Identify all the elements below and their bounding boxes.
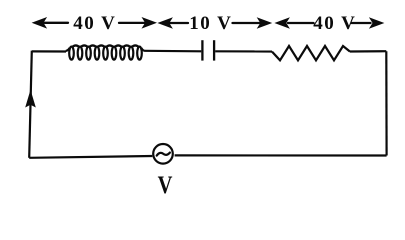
dim line 40V left shaft-left	[45, 22, 69, 24]
arrowhead dim1 right	[142, 17, 158, 29]
arrowhead dim2 left	[157, 17, 173, 29]
svg-text:10 V: 10 V	[189, 13, 232, 34]
wire source to bottom-left corner	[29, 156, 152, 158]
svg-text:40 V: 40 V	[313, 13, 356, 34]
wire capacitor to resistor	[215, 50, 272, 52]
inductor L1 coil	[66, 45, 145, 59]
arrowhead dim1 left	[32, 17, 47, 29]
arrowhead dim3 left	[274, 17, 290, 29]
dim line 40V right shaft-left	[288, 22, 314, 24]
wire top-left corner to coil	[32, 50, 66, 52]
arrowhead dim2 right	[257, 17, 273, 29]
wire coil to capacitor	[145, 50, 202, 53]
svg-text:V: V	[158, 171, 174, 197]
wire left side	[29, 51, 32, 158]
svg-text:40 V: 40 V	[73, 13, 116, 34]
capacitor C1 plates	[202, 40, 214, 60]
current arrow on left wire	[25, 90, 36, 108]
ac source V circle	[153, 144, 173, 164]
resistor R1 zigzag	[272, 46, 350, 60]
dim line 10V shaft-left	[170, 22, 188, 24]
ac source sine tilde	[157, 153, 170, 156]
dim line 40V right shaft-right	[352, 22, 371, 24]
arrowhead dim3 right	[369, 17, 385, 29]
wire resistor to top-right corner	[350, 50, 386, 52]
wire right side	[385, 51, 388, 155]
dim line 10V shaft-right	[233, 22, 262, 24]
dim line 40V left shaft-right	[119, 22, 146, 24]
wire bottom right to source	[175, 154, 387, 156]
